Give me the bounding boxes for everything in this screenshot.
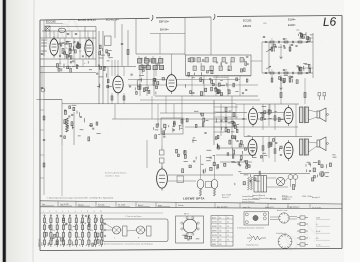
svg-text:LOEWE OPTA: LOEWE OPTA: [183, 196, 205, 200]
svg-text:Lautspr.(Phono-Stereo): Lautspr.(Phono-Stereo): [242, 198, 260, 201]
tension spring symbol: [247, 234, 266, 242]
tone drop resistors 2: [271, 78, 273, 82]
tube socket view box: [176, 216, 204, 243]
svg-text:160: 160: [219, 235, 222, 237]
title strip band tint: [40, 201, 342, 209]
svg-text:Ua: Ua: [219, 217, 221, 219]
tuner left wall: [45, 27, 47, 39]
power wiring: [267, 178, 296, 187]
svg-text:EBF89: EBF89: [212, 231, 217, 233]
eye output box: [177, 176, 184, 183]
resistor chain column 7: [82, 216, 84, 248]
mid bus y100: [140, 99, 260, 101]
svg-text:MW: MW: [48, 243, 50, 246]
tuner bus wire y38: [40, 37, 96, 39]
left vertical wire x74: [73, 112, 75, 145]
svg-text:L: L: [92, 245, 94, 246]
tone chain 2 bus: [262, 72, 313, 74]
svg-text:NF: NF: [80, 244, 82, 246]
strip row2 texts: [217, 206, 321, 210]
svg-text:Seilzug-Spannung: Seilzug-Spannung: [246, 244, 258, 246]
title strip upper line: [40, 201, 342, 204]
tone2 upper stub line: [298, 67, 313, 69]
coil pack tie wires: [139, 56, 160, 76]
driver second vertical: [220, 104, 222, 136]
svg-text:Bei Stereo-Betrieb Balance: Bei Stereo-Betrieb Balance: [105, 172, 127, 175]
tuner trimmer capacitor 1: [67, 33, 69, 34]
output stage coupling parts upper: [260, 107, 283, 122]
tuner left coupling cap: [41, 53, 43, 54]
svg-text:Ausgabe 2: Ausgabe 2: [312, 196, 320, 199]
ground tone 2: [279, 88, 282, 90]
svg-text:einstellen n. Skala: einstellen n. Skala: [105, 175, 120, 178]
svg-text:70: 70: [64, 56, 66, 58]
filter capacitor can 2: [293, 175, 298, 180]
V3 feed wires: [112, 60, 124, 104]
mid bus y96: [155, 95, 258, 97]
mains transformer: [254, 176, 267, 193]
left rail small parts: [43, 116, 45, 120]
left margin shading: [7, 0, 33, 262]
feedback network cluster lines: [216, 147, 256, 149]
schematic border frame: [40, 16, 342, 251]
IF block inner components row 1: [190, 58, 243, 63]
5 ohm terminal parts: [318, 93, 326, 101]
svg-text:1,4: 1,4: [227, 226, 229, 228]
IF secondary parts right of V4: [186, 71, 248, 96]
output bus y104: [236, 103, 299, 105]
svg-text:24.557.011: 24.557.011: [312, 208, 321, 210]
mixer cap C12: [121, 43, 123, 44]
svg-text:-195: -195: [263, 23, 266, 25]
mixer resistor R12: [127, 50, 129, 55]
tuner trimmer capacitor 2: [75, 33, 77, 34]
tone to output drops: [281, 78, 305, 104]
coil pack fuzz: [140, 57, 160, 73]
inter-tube vertical string a: [263, 104, 275, 130]
mains area parts: [306, 162, 323, 181]
chart texture overlay: [46, 216, 100, 247]
svg-text:215: 215: [219, 231, 222, 233]
resistor chain column 4: [62, 216, 64, 248]
right margin parts: [318, 155, 337, 177]
speaker unit labels: [114, 238, 140, 240]
svg-text:ECC85: ECC85: [212, 222, 217, 224]
inter-tube vertical string b: [263, 137, 275, 163]
ratio detector box: [161, 118, 183, 134]
mixer lower parts: [96, 65, 112, 88]
filter capacitor can 1: [288, 175, 293, 180]
output bus y112: [216, 112, 247, 114]
wire from top edge to IF box x211: [210, 17, 212, 55]
pickup circle 1: [245, 213, 248, 216]
tuner oscillator coil oval: [58, 28, 65, 32]
speaker box terminal circles: [104, 223, 106, 237]
svg-text:Ug: Ug: [227, 217, 229, 219]
svg-text:4k7: 4k7: [97, 237, 100, 239]
wire y33 horizontal: [150, 33, 185, 35]
speaker unit wires: [106, 224, 146, 231]
IF box output verticals: [192, 76, 240, 97]
speaker unit 2 circle: [137, 226, 145, 234]
power top wire y173: [240, 173, 310, 175]
svg-text:1k: 1k: [46, 223, 48, 225]
svg-text:L: L: [114, 238, 115, 240]
output bus y119: [216, 118, 247, 120]
resistor chain column 3: [56, 216, 58, 248]
output verticals: [226, 104, 296, 137]
vertical x115 bus link: [114, 104, 116, 119]
phono cathode resistors: [199, 189, 201, 196]
tuner lower RC parts: [56, 61, 92, 72]
mid-left switch cluster: [154, 119, 188, 139]
tone chain 1 bus: [262, 41, 313, 43]
tuner mid vertical wires: [60, 38, 93, 59]
antenna input comb: [41, 40, 47, 56]
detector string resistors: [139, 85, 141, 90]
svg-text:2,1: 2,1: [227, 222, 229, 224]
svg-text:220V~ 50Hz: 220V~ 50Hz: [302, 196, 312, 198]
tube socket large circle: [183, 219, 197, 233]
svg-text:* = Spannungen gemessen gegen: * = Spannungen gemessen gegen Chassis be…: [46, 197, 114, 200]
svg-text:ECH81: ECH81: [212, 226, 217, 228]
tube V6 EL84 upper-right: [284, 105, 293, 126]
tone2 extra cap: [283, 69, 285, 70]
svg-text:Nr. 1100: Nr. 1100: [118, 204, 125, 207]
tone1 upper stub line: [300, 37, 313, 39]
tone chains right wire: [312, 33, 314, 78]
pickup circle 2: [263, 213, 266, 216]
svg-text:Stereo: Stereo: [78, 203, 84, 206]
svg-text:210: 210: [219, 226, 222, 228]
svg-text:-16a: -16a: [296, 29, 299, 31]
V3 below parts: [111, 96, 113, 100]
link from IF box to tone section: [251, 60, 262, 62]
wire x171 vertical to det: [171, 54, 173, 72]
mid line y113: [160, 112, 216, 114]
tuner top bus wire: [46, 26, 96, 28]
socket view circle small: [279, 213, 289, 223]
svg-text:47k: 47k: [52, 230, 55, 232]
extra strip dashes: [42, 205, 171, 208]
svg-text:EM84: EM84: [212, 244, 216, 246]
svg-text:3n: 3n: [84, 63, 86, 65]
wire x115 mid: [114, 60, 116, 76]
tube V3 EBF89 IF: [113, 74, 123, 96]
svg-text:47k: 47k: [285, 70, 288, 72]
svg-text:47k: 47k: [285, 39, 288, 41]
resistor chain column 10: [101, 216, 103, 248]
IF block enclosure box: [186, 55, 252, 76]
svg-text:Datum: Datum: [178, 204, 184, 207]
inter-tube resistors a: [262, 113, 264, 118]
svg-text:TB: TB: [73, 244, 75, 246]
antenna jack circle: [41, 88, 45, 92]
IF block inner components row 2: [193, 66, 231, 71]
tone chain tiny labels: [271, 38, 302, 71]
volume pot link wire: [268, 42, 270, 73]
loudspeaker 2: [317, 137, 326, 151]
tube V8 EL84 lower-right: [284, 140, 293, 161]
svg-text:10: 10: [100, 211, 102, 213]
tuner grid resistor R2: [69, 49, 71, 54]
svg-text:Zeichenerklarung: Zeichenerklarung: [287, 207, 299, 209]
tuner input switch crossed box: [45, 26, 50, 31]
left vertical wire x62 lower: [61, 145, 63, 196]
tuner grid resistor R1: [62, 49, 64, 54]
svg-text:Norm D17: Norm D17: [265, 206, 274, 209]
tuner inner verticals hanging: [60, 59, 83, 67]
output bus y136: [244, 136, 312, 138]
svg-text:Ba: Ba: [86, 244, 88, 246]
svg-text:24-557.011: 24-557.011: [282, 199, 290, 201]
tube V2 ECC85 triode b: [85, 37, 93, 58]
chart vertical labels: [42, 242, 101, 246]
tone drop wires 2: [272, 75, 290, 87]
mid bus y103: [62, 103, 236, 105]
selenium rectifier: [276, 177, 284, 185]
tone drop resistor a: [280, 93, 282, 98]
volume pot wiper arrow 1: [266, 49, 271, 52]
switch contact cluster lower-left: [60, 105, 101, 141]
title strip tiny cell texts: [42, 203, 184, 207]
title strip cell dividers: [58, 201, 310, 208]
mains primary zigzags: [248, 177, 250, 190]
svg-text:ECC85 Uf=6,3V: ECC85 Uf=6,3V: [78, 19, 96, 22]
wire x122 down: [121, 24, 123, 66]
legend row 3 symbol: [297, 229, 308, 232]
IF block fuzz: [188, 56, 249, 73]
AM coil pack block row2: [139, 66, 164, 70]
inter-tube resistors b: [262, 146, 264, 151]
tube V5 EL84 upper-left: [249, 106, 258, 127]
section break mark 2 on top edge: [213, 14, 215, 20]
mixer top connector box: [105, 36, 112, 46]
svg-text:10n: 10n: [299, 38, 302, 40]
svg-text:EL84: EL84: [212, 240, 216, 242]
AM coil pack block row1: [138, 59, 163, 64]
resistor chain column 8: [88, 216, 90, 248]
mid line y79: [128, 79, 240, 81]
svg-text:ECC83: ECC83: [243, 19, 252, 23]
coil pack top wire: [136, 53, 185, 55]
driver stage cluster: [192, 111, 250, 145]
svg-text:0,1: 0,1: [271, 39, 273, 41]
svg-text:U~: U~: [316, 224, 318, 226]
tone1 lower cluster: [271, 44, 298, 52]
tuner anode resistor R3: [77, 44, 79, 49]
tone chain 2 components: [265, 72, 267, 73]
left lower wire x42: [41, 67, 43, 89]
wire x108 down to bus: [107, 67, 109, 104]
tuner inner vertical wire x50: [49, 31, 51, 38]
tuner lower bus wire y72: [40, 71, 96, 73]
tuner inner vertical wire x85: [84, 27, 86, 39]
tube V7 EL84 lower-left: [248, 137, 257, 158]
panel header ticks line: [40, 212, 163, 214]
speaker terminal dots: [327, 114, 329, 145]
speaker wires: [309, 110, 318, 152]
tube V1 ECC85 triode a: [50, 36, 58, 57]
wires eye to driver: [146, 140, 148, 168]
mains plug symbol: [319, 171, 324, 176]
svg-text:Ger.: Ger.: [42, 203, 46, 206]
voltage table lines: [211, 216, 233, 247]
svg-text:5: 5: [68, 211, 69, 213]
wafer top tick labels: [43, 211, 102, 213]
pickup circle 4: [263, 217, 266, 220]
resistor chain column 2: [50, 216, 52, 248]
output transformer 1: [300, 106, 309, 124]
pre-eye parts: [176, 149, 212, 174]
svg-text:UKW: UKW: [42, 242, 44, 246]
output stage coupling parts lower: [261, 139, 283, 158]
svg-text:1,2: 1,2: [227, 235, 229, 237]
tone drop resistor b: [304, 93, 306, 98]
svg-text:Schaltplan Nr.: Schaltplan Nr.: [282, 196, 293, 199]
detector parts between V3 V4: [129, 74, 165, 94]
socket parts: [182, 235, 199, 240]
wire x128 down: [127, 30, 129, 66]
svg-text:10,7MHz 460kHz: 10,7MHz 460kHz: [213, 77, 228, 79]
tone1 extra cap: [283, 38, 285, 39]
svg-text:EBC81: EBC81: [243, 24, 252, 28]
sunburst connector wires: [270, 217, 297, 220]
legend row 1 symbol: [297, 216, 308, 219]
speaker connection box: [103, 219, 168, 242]
mixer section boundary lines: [98, 31, 100, 104]
svg-text:0,1uF: 0,1uF: [316, 231, 320, 233]
svg-text:2. Teile nur bei Stereo: 2. Teile nur bei Stereo: [125, 215, 141, 218]
svg-text:EM 84=: EM 84=: [160, 29, 169, 32]
tuner case right wall: [95, 27, 97, 67]
driver ladder rungs: [214, 107, 238, 132]
ratio det parts: [163, 123, 181, 135]
long vertical x232: [231, 96, 233, 148]
svg-text:Stereo-Vollsuper: Stereo-Vollsuper: [242, 200, 255, 203]
EM84 right wires: [168, 174, 233, 176]
wire below IF block: [186, 75, 251, 77]
wire from top edge x185: [184, 18, 186, 55]
svg-text:557W: 557W: [270, 199, 277, 201]
voltage table frame: [211, 216, 233, 247]
ground tone 1: [279, 57, 282, 59]
scan speckle noise: [39, 14, 342, 253]
dial cord drum circle: [278, 235, 292, 249]
svg-text:7,3: 7,3: [227, 240, 229, 242]
svg-text:Schaltb.: Schaltb.: [98, 204, 105, 207]
output transformer 2: [300, 138, 309, 156]
svg-text:2k2: 2k2: [79, 51, 81, 53]
wire x160 vertical: [159, 34, 161, 55]
title strip lower line: [40, 207, 342, 209]
tone2 upper cluster: [297, 64, 311, 73]
voltage table entries: [212, 216, 229, 246]
svg-text:0,5: 0,5: [70, 63, 72, 65]
tuner bottom bus wire y59: [40, 58, 96, 60]
tone drop wires 1: [272, 44, 290, 56]
svg-text:gepr. Ko.: gepr. Ko.: [243, 206, 251, 209]
svg-text:25: 25: [59, 42, 61, 44]
legend row 5 symbol: [297, 243, 308, 246]
phono twin triode ellipse b: [211, 179, 218, 188]
mid line y85: [128, 84, 258, 86]
left vertical component chain: [66, 118, 69, 132]
pickup wiring box: [244, 212, 269, 225]
resistor chain column 5: [69, 216, 71, 248]
svg-text:MP 12: MP 12: [184, 214, 189, 216]
svg-text:Wellensch.: Wellensch.: [39, 238, 41, 247]
chart column value texts: [46, 223, 106, 239]
mixer small parts: [99, 45, 113, 61]
svg-text:Loewe-(Stereo): Loewe-(Stereo): [252, 194, 265, 197]
svg-text:50: 50: [73, 43, 75, 45]
tone drop resistors 1: [271, 47, 273, 51]
speaker unit 1 circle: [113, 226, 121, 234]
svg-text:5k: 5k: [71, 230, 73, 232]
legend row 4 symbol: [297, 236, 308, 239]
switch chart top contacts: [44, 215, 103, 216]
svg-text:10k: 10k: [59, 63, 62, 65]
left frame rail wire x44: [43, 20, 45, 195]
loudspeaker 1: [317, 108, 326, 122]
resistor chain column 6: [75, 216, 77, 248]
svg-text:240: 240: [219, 244, 222, 246]
phono center box: [206, 182, 212, 188]
svg-text:ECH81 Uf=: ECH81 Uf=: [106, 19, 119, 22]
scan spine bar left edge: [3, 0, 6, 262]
left vertical wire x62: [61, 100, 63, 146]
svg-text:gez. 12.9.57: gez. 12.9.57: [217, 206, 227, 208]
extra mid parts: [201, 150, 215, 166]
tuner tiny value labels: [59, 42, 86, 65]
page fold shadow line: [33, 0, 34, 262]
tone chain 1 components: [265, 41, 267, 42]
tone chain1 left end parts: [263, 36, 265, 37]
svg-text:3: 3: [56, 211, 57, 213]
legend row 2 symbol: [297, 222, 308, 225]
svg-text:220: 220: [78, 237, 81, 239]
volume pot wiper arrow 2: [266, 66, 271, 69]
svg-text:6,5: 6,5: [227, 231, 229, 233]
svg-text:EL84=: EL84=: [288, 18, 296, 22]
svg-text:0,1: 0,1: [271, 70, 273, 72]
driver verticals to phono: [152, 96, 215, 179]
tone1 upper cluster: [298, 32, 313, 41]
resistor chain column 1: [43, 216, 45, 248]
svg-text:12: 12: [82, 56, 84, 58]
tube socket pin circles: [181, 217, 199, 235]
svg-text:m. Ch: m. Ch: [316, 245, 321, 247]
svg-text:EL84=: EL84=: [288, 23, 296, 27]
resistor chain column 9: [94, 216, 96, 248]
tuner lower bus wire y66: [40, 66, 136, 68]
vertical wire from top frame x115: [114, 19, 116, 38]
EM84 feed resistor stack: [160, 146, 165, 169]
pickup circle 3: [245, 221, 248, 224]
tuner inner vertical ticks: [54, 31, 93, 38]
tube V9 EM84 magic eye: [157, 166, 168, 190]
wire x136 from top: [135, 19, 137, 55]
tuner components cluster: [58, 41, 84, 59]
svg-text:Loewe-(Stereo): Loewe-(Stereo): [242, 195, 254, 198]
pickup center dark knob: [253, 215, 258, 220]
tuner bus wire y31: [42, 30, 96, 32]
svg-text:170: 170: [219, 222, 222, 224]
section break mark on top edge: [151, 15, 153, 21]
svg-text:68k: 68k: [90, 230, 93, 232]
coil pack output verticals: [140, 70, 154, 96]
